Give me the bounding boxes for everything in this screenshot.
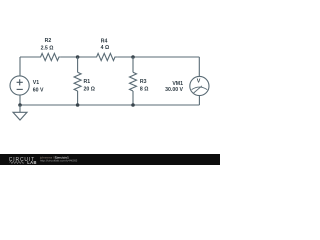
watermark footer bar: [0, 154, 220, 165]
svg-text:VM1: VM1: [172, 81, 183, 87]
wire VM1 top drop: [198, 57, 200, 76]
svg-text:4 Ω: 4 Ω: [101, 45, 110, 51]
svg-text:60 V: 60 V: [33, 87, 44, 93]
svg-text:http://circuitlab.com/c44t565: http://circuitlab.com/c44t565: [40, 158, 78, 162]
resistor R2: [38, 38, 60, 60]
node junction bottom V1/ground: [18, 103, 22, 107]
node junction bottom R1: [76, 103, 80, 107]
wire R1 branch bottom: [77, 91, 79, 105]
svg-text:R2: R2: [45, 38, 52, 44]
svg-text:LAB: LAB: [27, 160, 36, 165]
wire top rail right segment: [117, 56, 199, 58]
wire R1 branch top: [77, 57, 79, 72]
svg-text:2.5 Ω: 2.5 Ω: [41, 45, 54, 51]
voltage source V1: [10, 76, 44, 95]
node junction top R3: [131, 55, 135, 59]
wire top rail left segment: [20, 56, 38, 58]
wire V1 top drop: [19, 57, 21, 76]
resistor R1: [74, 72, 95, 92]
svg-text:8 Ω: 8 Ω: [140, 87, 149, 93]
wire bottom rail: [20, 104, 199, 106]
svg-text:R4: R4: [101, 38, 108, 44]
resistor R3: [130, 72, 149, 92]
svg-text:30.00 V: 30.00 V: [165, 87, 183, 93]
CircuitLab logo: [9, 157, 37, 165]
svg-text:R1: R1: [84, 79, 91, 85]
svg-text:R3: R3: [140, 79, 147, 85]
wire V1 bottom drop: [19, 95, 21, 105]
node junction top R1: [76, 55, 80, 59]
node junction bottom R3: [131, 103, 135, 107]
svg-text:V1: V1: [33, 80, 39, 86]
wire R3 branch bottom: [132, 91, 134, 105]
ground: [13, 105, 27, 120]
wire R3 branch top: [132, 57, 134, 72]
watermark text: [39, 155, 78, 162]
wire top rail middle segment: [60, 56, 95, 58]
voltmeter VM1: [165, 76, 209, 95]
svg-text:20 Ω: 20 Ω: [84, 87, 95, 93]
resistor R4: [95, 38, 117, 60]
svg-text:V: V: [197, 79, 201, 85]
wire VM1 bottom drop: [198, 96, 200, 105]
